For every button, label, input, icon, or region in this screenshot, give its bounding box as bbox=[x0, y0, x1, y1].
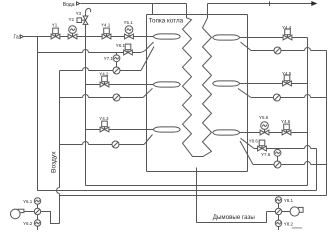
wire flue gas duct bbox=[197, 212, 276, 223]
label Y1 bbox=[52, 23, 58, 28]
label Газ (gas inlet) bbox=[14, 34, 22, 40]
wire gas line row5 right bbox=[240, 83, 308, 85]
valve Y4.4 solenoid bbox=[283, 29, 292, 40]
svg-text:Y4.4: Y4.4 bbox=[282, 25, 292, 30]
burner flame 2 left bbox=[153, 82, 180, 87]
burner flame 6 right bbox=[213, 130, 240, 135]
svg-text:Y4.3: Y4.3 bbox=[99, 116, 109, 121]
wire ignition manifold vertical right bbox=[316, 149, 318, 191]
actuator Y7.6 bbox=[274, 149, 281, 162]
svg-text:Y4.2: Y4.2 bbox=[99, 71, 109, 76]
air blower fan bbox=[11, 209, 24, 219]
label Y4.4 bbox=[282, 25, 292, 30]
svg-text:Y8.2: Y8.2 bbox=[284, 221, 294, 226]
wire stub below Y8.2 bbox=[278, 227, 280, 231]
wire air line row2 left bbox=[60, 88, 153, 97]
label Y4.5 bbox=[282, 71, 292, 76]
air damper row3 left bbox=[112, 141, 119, 148]
label Y3 bbox=[76, 11, 82, 16]
valve Y2 control bbox=[68, 26, 77, 39]
valve Y5.6 control bbox=[260, 122, 269, 135]
wire air manifold vertical bbox=[57, 71, 60, 224]
actuator Y7.1 bbox=[113, 53, 120, 68]
flue damper bbox=[275, 208, 281, 214]
wire gas manifold vertical right bbox=[307, 38, 309, 186]
wire bottom line 1 bbox=[86, 185, 308, 187]
svg-text:Y5.1: Y5.1 bbox=[124, 20, 134, 25]
air damper row4 right bbox=[274, 47, 281, 54]
svg-text:Воздух: Воздух bbox=[51, 151, 58, 173]
actuator Y6.1 bbox=[34, 198, 40, 204]
junction tick on water line bbox=[269, 1, 271, 6]
actuator Y6.2 bbox=[34, 220, 40, 226]
svg-text:Y8.1: Y8.1 bbox=[116, 43, 126, 48]
svg-text:Y8.1: Y8.1 bbox=[284, 198, 294, 203]
valve Y8.6 solenoid bbox=[258, 140, 267, 151]
wire gas line row6 right bbox=[240, 132, 308, 134]
wire gas line row2 left bbox=[86, 84, 154, 86]
burner flame 1 left bbox=[153, 34, 180, 39]
actuator Y8.1 flue bbox=[275, 197, 281, 203]
svg-text:Y4.1: Y4.1 bbox=[101, 23, 111, 28]
burner flame 4 right bbox=[213, 35, 240, 40]
valve Y3 vertical with square actuator bbox=[77, 13, 88, 36]
wire bottom line 2 bbox=[38, 190, 317, 192]
label Y4.3 bbox=[99, 116, 109, 121]
wire air line row6 right bbox=[240, 141, 327, 165]
valve Y4.1 solenoid bbox=[102, 28, 111, 39]
wire furnace flue drop bbox=[196, 168, 198, 223]
valve Y4.3 solenoid bbox=[100, 121, 109, 132]
label Y4.1 bbox=[101, 23, 111, 28]
flow arrow after Вода bbox=[77, 2, 80, 5]
wire flue fan inlet bbox=[282, 211, 290, 213]
valve Y8.1 solenoid bbox=[124, 44, 133, 55]
wire air line row1 left bbox=[60, 47, 155, 71]
label Y8.1 flue bbox=[284, 198, 294, 203]
label Y5.1 bbox=[124, 20, 134, 25]
wire water line left segment bbox=[81, 3, 187, 5]
svg-text:Y2: Y2 bbox=[69, 17, 75, 22]
label Y6.1 bbox=[23, 199, 33, 204]
label Y8.6 bbox=[249, 138, 259, 143]
svg-text:Y5.6: Y5.6 bbox=[259, 115, 269, 120]
heat-exchanger coil (zigzag tubes) bbox=[183, 4, 212, 157]
flue exhaust fan bbox=[290, 207, 303, 216]
label Y6.2 bbox=[23, 221, 33, 226]
actuator Y8.2 flue bbox=[275, 220, 281, 226]
wire air line row3 left bbox=[60, 135, 153, 145]
wire air line row5 right bbox=[238, 89, 327, 98]
label Дымовые газы bbox=[213, 214, 256, 221]
svg-text:Y4.5: Y4.5 bbox=[282, 71, 292, 76]
valve Y1 solenoid bbox=[51, 28, 60, 39]
svg-text:Y1: Y1 bbox=[52, 23, 58, 28]
wire vertical manifold from Y3 bbox=[85, 37, 87, 186]
label Y8.1 bbox=[116, 43, 126, 48]
wire riser pipe left bbox=[152, 4, 154, 15]
svg-text:Дымовые газы: Дымовые газы bbox=[213, 214, 256, 221]
wire gas drop vertical bbox=[37, 37, 39, 191]
cut-off duct at bottom edge bbox=[292, 227, 302, 229]
wire air line row4 right bbox=[241, 42, 327, 51]
svg-text:Y7.6: Y7.6 bbox=[261, 152, 271, 157]
wire bottom line 3 bbox=[60, 195, 327, 197]
boiler furnace box (Топка котла) bbox=[147, 15, 248, 172]
label Y5.6 bbox=[259, 115, 269, 120]
air damper row6 right bbox=[274, 161, 281, 168]
svg-text:Y7.1: Y7.1 bbox=[104, 56, 114, 61]
valve Y4.6 solenoid bbox=[282, 124, 291, 135]
wire blower vertical bbox=[37, 204, 39, 220]
wire blower outlet bbox=[24, 211, 34, 213]
valve Y4.2 solenoid bbox=[100, 76, 109, 87]
burner flame 3 left bbox=[153, 127, 180, 132]
svg-text:Y6.1: Y6.1 bbox=[23, 199, 33, 204]
air damper row1 left bbox=[113, 67, 120, 74]
label Воздух (air) bbox=[51, 151, 58, 173]
valve Y4.5 solenoid bbox=[283, 75, 292, 86]
wire gas line row4 right bbox=[240, 37, 308, 39]
wire stub below Y6.2 bbox=[37, 226, 39, 230]
blower damper bbox=[34, 208, 40, 214]
svg-text:Y8.6: Y8.6 bbox=[249, 138, 259, 143]
wire gas main line bbox=[24, 36, 153, 38]
wire blower duct loop bbox=[41, 212, 60, 224]
svg-text:Топка котла: Топка котла bbox=[149, 18, 184, 25]
wire air manifold vertical right bbox=[326, 51, 328, 196]
wire water line right segment bbox=[208, 3, 314, 5]
wire water branch curl bbox=[85, 8, 90, 13]
label Y4.6 bbox=[281, 119, 291, 124]
air damper row5 right bbox=[273, 94, 280, 101]
label Y8.2 flue bbox=[284, 221, 294, 226]
svg-text:Y6.2: Y6.2 bbox=[23, 221, 33, 226]
burner flame 5 right bbox=[213, 81, 240, 86]
air damper row2 left bbox=[113, 94, 120, 101]
arrowhead water outlet bbox=[312, 2, 316, 5]
label Y7.6 bbox=[261, 152, 271, 157]
label Y7.1 bbox=[104, 56, 114, 61]
svg-text:Y4.6: Y4.6 bbox=[281, 119, 291, 124]
wire ignition line row6 right bbox=[241, 138, 317, 148]
wire exhaust vertical bbox=[278, 203, 280, 220]
label Вода (water inlet) bbox=[63, 2, 75, 8]
wire gas line row3 left bbox=[86, 129, 154, 131]
valve Y5.1 control bbox=[125, 26, 134, 39]
svg-text:Y3: Y3 bbox=[76, 11, 82, 16]
label Y4.2 bbox=[99, 71, 109, 76]
wire ignition line row1 bbox=[38, 42, 154, 53]
flow arrow after Газ bbox=[20, 35, 23, 38]
label Y2 bbox=[69, 17, 75, 22]
svg-text:Вода: Вода bbox=[63, 2, 75, 8]
label Топка котла bbox=[149, 18, 184, 25]
